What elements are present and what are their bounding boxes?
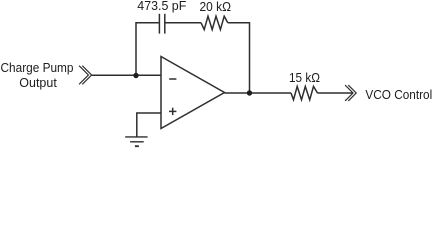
wire: op-amp non-inverting input to ground stem bbox=[137, 113, 161, 137]
node junction dot at inverting input bbox=[133, 73, 138, 78]
svg-text:20 kΩ: 20 kΩ bbox=[200, 0, 232, 14]
wire: op-amp output to node bbox=[225, 92, 250, 94]
wire: input to inverting node bbox=[92, 74, 136, 76]
wire: resistor to output chevron bbox=[318, 92, 354, 94]
resistor R-series 15 kohm zigzag bbox=[291, 86, 318, 99]
wire: feedback left vertical leg bbox=[136, 23, 159, 76]
svg-text:15 kΩ: 15 kΩ bbox=[289, 70, 320, 85]
op-amp U1 triangle bbox=[161, 57, 225, 129]
svg-text:Charge Pump: Charge Pump bbox=[1, 60, 74, 75]
svg-text:473.5 pF: 473.5 pF bbox=[137, 0, 186, 13]
wire: resistor to feedback right vertical leg bbox=[228, 23, 250, 93]
resistor R-feedback 20 kohm zigzag bbox=[201, 16, 228, 29]
output port chevron >> (VCO Control) bbox=[345, 85, 356, 101]
op-amp plus symbol bbox=[169, 108, 176, 115]
svg-text:VCO Control: VCO Control bbox=[365, 87, 432, 102]
input port chevron >> (Charge Pump Output) bbox=[79, 66, 92, 85]
op-amp minus symbol bbox=[169, 78, 176, 80]
ground symbol bbox=[125, 137, 147, 146]
svg-text:Output: Output bbox=[19, 75, 57, 90]
node junction dot at op-amp output bbox=[247, 90, 252, 95]
wire: node to op-amp inverting input bbox=[136, 74, 161, 76]
wire: capacitor to resistor bbox=[165, 22, 201, 24]
capacitor C1 plates bbox=[159, 14, 164, 34]
wire: output node to series resistor bbox=[250, 92, 292, 94]
